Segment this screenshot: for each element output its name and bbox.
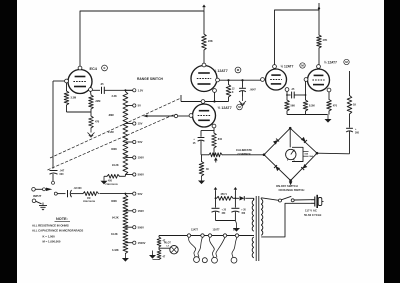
wire R1 to V2 plate — [203, 50, 205, 64]
pilot lamp — [170, 246, 178, 254]
svg-text:12AT7: 12AT7 — [191, 229, 199, 232]
note line 2 — [32, 229, 83, 233]
label 3.3K — [112, 95, 117, 98]
pin V5 grid — [189, 114, 193, 118]
diode D4 — [301, 164, 307, 170]
wire R2 to V4 plate — [318, 48, 320, 65]
wire output top — [349, 71, 351, 96]
svg-text:LT.: LT. — [167, 245, 170, 247]
label 1K — [353, 104, 356, 107]
svg-text:94.2K: 94.2K — [112, 164, 119, 167]
wire to D5 — [233, 197, 239, 199]
wire plate resistor top — [203, 11, 205, 34]
resistor R12 56K — [285, 100, 290, 115]
label INPUT — [33, 194, 42, 198]
ground EC4 cathode — [88, 128, 95, 137]
note line 4 — [43, 240, 61, 244]
heater lead 5 — [232, 237, 237, 257]
wire pot to bridge — [222, 154, 264, 156]
transformer filament winding — [252, 237, 254, 258]
label C9 — [241, 210, 246, 215]
note title — [55, 217, 71, 221]
svg-text:56K: 56K — [291, 105, 296, 108]
ground cathode bus — [325, 115, 332, 123]
resistor R8 12K — [226, 80, 231, 101]
label 47K — [323, 38, 328, 42]
note line 3 — [43, 235, 56, 239]
wire cap bottoms — [216, 220, 236, 222]
label .22M — [95, 100, 101, 103]
meter leads — [303, 152, 313, 159]
label 30 — [206, 168, 209, 171]
input selector blade — [46, 188, 52, 191]
wire to R2 — [318, 10, 320, 35]
wire C7 down — [349, 131, 351, 153]
label 1M PRECISION — [83, 197, 95, 203]
B+ terminal arrow — [202, 5, 206, 12]
svg-text:ALL CAPACITANCE IN MICROFARADS: ALL CAPACITANCE IN MICROFARADS — [32, 229, 83, 233]
right film border bar — [384, 0, 400, 283]
heater lead 4 — [216, 237, 225, 257]
svg-text:3.3K: 3.3K — [112, 95, 117, 98]
svg-text:300: 300 — [355, 132, 360, 135]
wire cathode to C6 — [286, 94, 291, 96]
capacitor C4 .0047 — [239, 80, 246, 96]
wire switch to plug — [294, 199, 311, 201]
capacitor C1 .05 — [100, 83, 104, 94]
resistor R9 840 — [212, 132, 217, 156]
svg-text:NOTE:: NOTE: — [56, 217, 68, 221]
wire bridge right to C7 — [317, 152, 350, 155]
svg-text:5V: 5V — [138, 104, 141, 108]
svg-text:EC4: EC4 — [90, 67, 98, 71]
svg-text:M = 1,000,000: M = 1,000,000 — [43, 240, 61, 244]
pin V1 plate — [78, 66, 82, 70]
svg-text:ALL RESISTANCE IN OHMS: ALL RESISTANCE IN OHMS — [32, 224, 69, 228]
svg-text:.22M: .22M — [95, 100, 101, 103]
resistor R14 470 — [327, 100, 332, 115]
pin V4 cathode — [327, 88, 331, 92]
svg-text:K = 1,000: K = 1,000 — [43, 235, 56, 239]
B+ arrow left — [214, 187, 218, 192]
label 3.43K dc — [112, 249, 119, 252]
resistor R2 47K — [317, 35, 322, 48]
wire primary bottom to plug — [261, 203, 311, 237]
wire R17 R18 junction — [159, 247, 170, 250]
svg-text:50V: 50V — [138, 140, 143, 144]
dc contact — [54, 192, 57, 195]
svg-text:+ 20: + 20 — [241, 210, 246, 212]
wire R15 to C7 — [349, 114, 351, 128]
resistor R4 .22M — [89, 95, 94, 109]
svg-text:ON-OFF SWITCH: ON-OFF SWITCH — [276, 184, 298, 188]
label 470 — [95, 121, 100, 124]
label 2.2M — [108, 131, 114, 134]
wire switch stub to V5 — [181, 95, 201, 102]
wire V3 plate B+ rail — [275, 10, 320, 65]
svg-text:CONTROL: CONTROL — [238, 152, 252, 156]
svg-text:½ 12AT7: ½ 12AT7 — [324, 61, 337, 65]
svg-text:500V: 500V — [138, 173, 144, 177]
range taps AC — [125, 89, 144, 177]
ground pilot — [149, 251, 159, 260]
wire cathode to cap — [93, 89, 101, 91]
divider chain AC — [123, 92, 128, 175]
label C8 — [222, 210, 227, 215]
wire R4 bottom — [90, 109, 92, 116]
tube V4 12AT7c — [308, 69, 330, 91]
label .02 600 — [74, 187, 83, 190]
resistor R18 47 — [157, 250, 161, 260]
label 94.2K — [112, 164, 119, 167]
linkage dash line 1 — [50, 98, 181, 158]
svg-text:1M: 1M — [87, 197, 90, 200]
svg-text:94.2K: 94.2K — [112, 217, 119, 220]
label 3.3M — [71, 97, 77, 100]
wire arrows down — [215, 192, 237, 200]
wire V5 cathode — [213, 128, 215, 132]
svg-text:½ 12AT7: ½ 12AT7 — [218, 106, 232, 110]
svg-text:460K: 460K — [111, 200, 117, 203]
ground DC divider — [122, 254, 129, 262]
label 470 v4 — [333, 105, 338, 108]
resistor R13 8.2M — [303, 100, 308, 115]
pin V4 plate — [317, 65, 321, 69]
resistor R3 3.3M — [64, 91, 69, 105]
label 22K — [208, 39, 213, 43]
capacitor C5 15MF — [198, 138, 205, 155]
resistor R7 1M precision — [74, 192, 99, 196]
svg-text:1500V: 1500V — [138, 241, 146, 245]
heater pins — [187, 234, 238, 237]
bridge diamond — [264, 128, 317, 180]
svg-text:150V: 150V — [138, 156, 144, 160]
svg-text:8.2M: 8.2M — [309, 105, 315, 108]
heater bus — [159, 235, 254, 237]
label PILOT — [164, 243, 171, 248]
svg-text:22K: 22K — [208, 39, 213, 43]
label 47 bottom — [163, 256, 166, 259]
bridge output arrow — [289, 182, 293, 186]
socket circle 2 — [202, 258, 207, 263]
svg-text:.05: .05 — [100, 83, 104, 86]
svg-text:12AT7: 12AT7 — [213, 229, 221, 232]
transformer T1 core — [256, 196, 259, 261]
wire to C5 — [201, 131, 214, 137]
svg-text:K: K — [232, 91, 234, 94]
label EC4 — [90, 65, 108, 71]
wire filament tap — [253, 235, 255, 237]
svg-text:15V: 15V — [138, 122, 143, 126]
wire cap2 lead — [234, 198, 236, 207]
tube V1 EC4 — [68, 70, 92, 94]
meter loop — [290, 128, 303, 161]
pin V3 cathode — [285, 88, 289, 92]
label V4 — [324, 59, 349, 64]
wire cap1 lead — [215, 198, 217, 207]
label 47 top — [163, 240, 166, 243]
svg-text:MA: MA — [310, 155, 314, 158]
label 56K — [291, 105, 296, 108]
wire cathode drop — [90, 92, 93, 96]
svg-text:.0047: .0047 — [250, 89, 257, 92]
resistor R15 1K — [347, 96, 352, 115]
input jack hot — [32, 188, 46, 192]
wire C1 to divider — [104, 89, 133, 91]
resistor R16 filter — [217, 196, 234, 200]
label .68M — [108, 114, 114, 117]
svg-text:470: 470 — [333, 105, 338, 108]
svg-text:½ 12AT7: ½ 12AT7 — [281, 65, 294, 69]
wire V3 cathode — [286, 91, 288, 100]
resistor R1 22K plate — [202, 34, 207, 50]
svg-text:3.43K: 3.43K — [112, 249, 119, 252]
transformer HV secondary — [252, 198, 254, 231]
bridge corner nodes — [263, 127, 319, 182]
label 450 PRECISION — [106, 180, 118, 186]
socket circle 3 — [212, 257, 218, 263]
pin V1 grid — [65, 79, 69, 83]
node B+ right — [318, 3, 320, 10]
B+ arrow right — [234, 187, 238, 192]
label CALIBRATE CONTROL — [236, 148, 252, 156]
pin V5 plate — [201, 100, 205, 104]
label 117V AC — [304, 208, 322, 217]
pin V3 grid — [261, 78, 265, 82]
svg-text:½ 12AT7: ½ 12AT7 — [214, 69, 228, 73]
capacitor C7 300 — [346, 128, 360, 135]
label heater tubes — [191, 229, 238, 232]
capacitor C2 .047 600 — [50, 171, 58, 182]
switch wiper arm — [143, 114, 189, 117]
wire primary top to switch — [261, 198, 278, 201]
label 8.2M — [309, 105, 315, 108]
wire V2 cathode to V3 grid — [220, 79, 261, 81]
AC plug — [311, 195, 324, 208]
socket circle 4 — [231, 257, 237, 263]
label 12K — [232, 88, 235, 95]
label .047 600 — [60, 170, 65, 177]
svg-text:.02 600: .02 600 — [74, 187, 83, 190]
svg-text:.68M: .68M — [108, 114, 114, 117]
wire R3 bottom — [67, 105, 92, 112]
pin V5 cathode — [212, 124, 216, 128]
resistor R5 470 — [89, 116, 94, 128]
heater lead 2 — [198, 237, 203, 257]
svg-text:117 V AC: 117 V AC — [305, 208, 317, 212]
label V2 — [214, 67, 241, 73]
svg-text:470: 470 — [95, 121, 100, 124]
ground R11 — [198, 176, 205, 184]
tube V3 12AT7b — [266, 69, 287, 90]
label .0047 — [250, 89, 257, 92]
wire D5 to transformer — [245, 198, 253, 200]
capacitor C6 .25 — [291, 88, 295, 99]
svg-text:INPUT: INPUT — [33, 194, 42, 198]
label 840 — [218, 138, 223, 141]
capacitor C3 .02 — [68, 190, 75, 197]
label 460K — [111, 148, 117, 151]
switch S1 — [279, 196, 295, 202]
left film border bar — [0, 0, 17, 283]
diode D2 — [301, 137, 307, 143]
wire C6 to V4 grid — [294, 81, 306, 100]
resistor R11 30 — [199, 155, 204, 176]
meter M1 — [286, 149, 296, 160]
pin V2 grid2 — [213, 89, 217, 93]
svg-text:RANGE SWITCH: RANGE SWITCH — [137, 77, 163, 81]
svg-text:47K: 47K — [323, 38, 328, 42]
diode D5 rectifier — [240, 196, 245, 200]
wire EC4 grid — [53, 81, 65, 169]
svg-text:450 V: 450 V — [221, 193, 228, 196]
svg-text:500V: 500V — [138, 225, 144, 229]
svg-text:+ 20: + 20 — [222, 210, 227, 212]
svg-text:50V: 50V — [138, 192, 143, 196]
linkage dash line 2 — [48, 115, 174, 170]
svg-text:2.2M: 2.2M — [108, 131, 114, 134]
wire grid resistor top — [66, 83, 68, 91]
diode D1 — [273, 139, 279, 145]
svg-text:150V: 150V — [138, 209, 144, 213]
svg-text:3.3M: 3.3M — [71, 97, 77, 100]
transformer primary — [261, 198, 263, 236]
ground precision resistor — [101, 176, 108, 184]
heater lead 3 — [210, 237, 215, 257]
input jack ground — [32, 199, 41, 204]
svg-text:840: 840 — [218, 138, 223, 141]
wire EC4 plate to B+ rail — [80, 11, 204, 68]
svg-text:EC4: EC4 — [233, 229, 238, 232]
svg-text:600: 600 — [60, 173, 65, 176]
label 94.2K dc — [112, 217, 119, 220]
wire V4 cathode — [328, 92, 330, 100]
pin V1 cathode — [89, 88, 93, 92]
svg-text:PRECISION: PRECISION — [106, 184, 118, 186]
svg-text:34.3K: 34.3K — [111, 233, 118, 236]
note line 1 — [32, 224, 69, 228]
capacitor C9 20/450 — [231, 208, 239, 220]
pin V2 plate — [202, 63, 206, 67]
label 460K dc — [111, 200, 117, 203]
socket circle 1 — [194, 257, 200, 263]
svg-text:E: E — [103, 66, 105, 70]
pin V2 cathode — [216, 78, 220, 82]
label 450V — [221, 193, 228, 196]
wire cathode bus — [287, 114, 328, 116]
tube V5 12AT7d — [193, 104, 216, 127]
label RANGE SWITCH — [137, 77, 163, 81]
diode D3 — [274, 165, 280, 171]
svg-text:1.5V: 1.5V — [138, 89, 144, 93]
ground input — [39, 203, 47, 211]
ground filter caps — [233, 221, 240, 232]
heater lead 1 — [189, 237, 196, 257]
wire input to DC divider — [100, 193, 127, 195]
range taps DC — [125, 192, 145, 245]
svg-text:450: 450 — [108, 180, 113, 183]
label V5 — [218, 104, 243, 110]
label +15 — [193, 137, 196, 145]
wire contact to C3 — [57, 193, 65, 195]
capacitor C8 20/450 — [212, 208, 220, 220]
ac contact — [52, 181, 55, 184]
calibrate pot R10 — [201, 153, 222, 163]
svg-text:460K: 460K — [111, 148, 117, 151]
tube V2 12AT7a — [191, 66, 217, 92]
label ON-OFF SWITCH — [276, 184, 304, 192]
svg-text:PRECISION: PRECISION — [83, 201, 95, 203]
label 34.3K dc — [111, 233, 118, 236]
resistor R17 47 — [157, 236, 161, 248]
svg-text:50-60 CYCLE: 50-60 CYCLE — [304, 213, 322, 217]
pin V3 plate — [273, 65, 277, 69]
divider chain DC — [123, 195, 128, 254]
svg-text:1K: 1K — [353, 104, 356, 107]
svg-text:ON RANGE SWITCH: ON RANGE SWITCH — [279, 188, 305, 192]
label V3 — [281, 63, 306, 69]
pin V4 grid — [304, 78, 308, 82]
ground C4 — [239, 97, 246, 106]
wire grid bus V5 — [205, 92, 229, 102]
resistor R6 450 precision — [104, 174, 125, 178]
